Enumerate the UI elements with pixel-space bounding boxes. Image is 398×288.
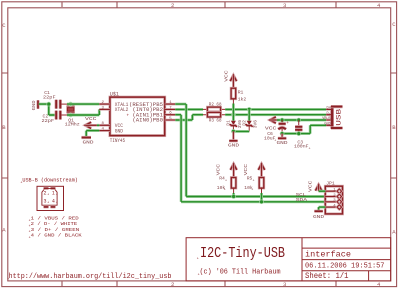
crystal Q1	[65, 104, 80, 128]
svg-text:+: +	[224, 189, 226, 193]
junction R5/SDA	[259, 200, 264, 205]
svg-text:VCC: VCC	[265, 126, 277, 132]
capacitor C2	[42, 111, 68, 125]
svg-text:D1: D1	[226, 120, 232, 126]
frame row ticks left	[2, 73, 8, 178]
svg-text:VCC: VCC	[243, 164, 249, 176]
svg-text:USB: USB	[336, 109, 343, 126]
svg-text:GND: GND	[228, 143, 239, 149]
svg-text:D2: D2	[241, 120, 247, 126]
junction D1 bottom	[231, 129, 236, 134]
svg-text:VCC: VCC	[85, 116, 97, 122]
svg-text:http://www.harbaum.org/till/i2: http://www.harbaum.org/till/i2c_tiny_usb	[9, 273, 172, 281]
ground GND4 (caps)	[277, 134, 288, 146]
wire XTAL2 net	[67, 109, 99, 115]
junction R1/D1 on D-	[231, 112, 236, 117]
frame column number 1 top	[61, 2, 63, 7]
connector USB body	[330, 106, 334, 129]
svg-text:(c) '06 Till Harbaum: (c) '06 Till Harbaum	[200, 269, 281, 277]
junction caps-gnd node	[46, 102, 51, 107]
svg-text:R3 68: R3 68	[209, 117, 222, 123]
svg-text:D-: D-	[326, 112, 330, 116]
text origin marks	[7, 181, 199, 282]
pin stubs right	[165, 104, 176, 120]
resistor R1 1k2 pullup	[224, 70, 247, 115]
usb-b socket shape	[42, 189, 57, 206]
frame column ticks bottom	[117, 281, 336, 287]
svg-text:2: 2	[171, 2, 174, 9]
junction D2 on D+	[247, 107, 252, 112]
svg-text:+: +	[286, 121, 289, 126]
svg-text:VCC: VCC	[307, 180, 313, 192]
svg-text:R1: R1	[238, 90, 244, 96]
zener diode D2 3V6	[241, 109, 258, 131]
svg-text:+: +	[198, 274, 200, 278]
usb-b pads	[44, 188, 56, 207]
svg-text:+: +	[197, 258, 199, 262]
svg-text:1k2: 1k2	[238, 97, 247, 103]
supply VCC (JP1 pin1)	[307, 180, 325, 192]
svg-text:JP1: JP1	[326, 181, 335, 187]
wire net D+ (R2 to USB)	[225, 108, 326, 111]
svg-text:2: 2	[171, 281, 174, 288]
svg-text:3 / D+ / GREEN: 3 / D+ / GREEN	[31, 227, 80, 233]
wire net SCL (pin1)	[175, 104, 325, 196]
wire GND1 to caps node	[39, 104, 55, 115]
ground GND5 (JP1 pin4)	[313, 207, 325, 220]
svg-text:1 / VBUS / RED: 1 / VBUS / RED	[31, 215, 79, 221]
resistor R5 10k pullup	[243, 164, 265, 202]
svg-text:D+: D+	[326, 107, 330, 111]
svg-text:06.11.2006 19:51:57: 06.11.2006 19:51:57	[305, 263, 385, 271]
title block box	[186, 238, 391, 281]
capacitor C3 100nF	[294, 120, 311, 151]
capacitor C6 10uF polarized	[264, 120, 289, 144]
pin 2 diamond	[325, 195, 337, 198]
svg-text:SDA: SDA	[296, 197, 308, 203]
frame column ticks top	[117, 2, 336, 8]
svg-text:interface: interface	[305, 251, 351, 260]
svg-text:+: +	[309, 147, 311, 151]
svg-text:+: +	[225, 179, 227, 183]
resistor R2 68	[203, 102, 225, 112]
svg-text:1: 1	[52, 191, 55, 197]
supply VCC (arrow left, VBUS)	[265, 117, 277, 132]
frame row ticks right	[391, 73, 397, 178]
svg-text:GND: GND	[277, 140, 288, 146]
resistor R4 10k pullup	[215, 164, 237, 197]
zener diode D1 3V6	[226, 115, 243, 132]
svg-text:VCC: VCC	[215, 164, 221, 176]
wire VCC to pin8	[97, 124, 99, 127]
svg-text:GND: GND	[83, 139, 94, 145]
junction C3 bottom	[296, 131, 301, 136]
wire D1-D2 bottoms	[233, 130, 249, 133]
wire net SDA (pin6)	[175, 115, 325, 202]
svg-text:+: +	[251, 189, 253, 193]
usb-b outline box	[37, 186, 64, 210]
svg-text:R2 68: R2 68	[209, 102, 222, 108]
op IC body U$1	[110, 97, 165, 136]
svg-text:U$1: U$1	[110, 91, 119, 97]
svg-text:+: +	[253, 179, 255, 183]
wire R1 to D- net	[232, 104, 235, 115]
ground GND2 (at pin 4)	[82, 131, 100, 146]
ground GND1 (left of C1/C2)	[31, 100, 38, 110]
svg-text:12Mhz: 12Mhz	[65, 122, 80, 128]
wire net VBUS	[277, 119, 326, 122]
svg-text:GND: GND	[324, 123, 330, 127]
svg-text:100nF: 100nF	[294, 144, 309, 150]
junction crystal bottom	[68, 113, 73, 118]
connector JP1 body	[325, 186, 342, 214]
pin stubs USB	[326, 109, 331, 125]
pin 4 diamond	[325, 206, 337, 209]
ground GND3 (zeners)	[228, 131, 239, 148]
svg-text:3: 3	[44, 199, 47, 205]
svg-text:+: +	[56, 201, 58, 205]
resistor R3 68	[203, 112, 225, 123]
wire net GND (USB to caps)	[282, 125, 326, 133]
svg-text:(AIN0)PB0: (AIN0)PB0	[132, 118, 163, 124]
wire XTAL1 net	[67, 103, 99, 106]
wire net D- (pin5 jog to R3)	[175, 115, 203, 120]
svg-text:Sheet: 1/1: Sheet: 1/1	[305, 272, 349, 281]
svg-text:+: +	[127, 113, 130, 118]
junction R4/SCL	[231, 194, 236, 199]
svg-text:XTAL2: XTAL2	[115, 107, 129, 113]
frame column number 1 bottom	[61, 282, 63, 287]
svg-text:I2C-Tiny-USB: I2C-Tiny-USB	[200, 245, 285, 262]
svg-text:2 / D- / WHITE: 2 / D- / WHITE	[31, 221, 78, 227]
supply VCC (R1)	[230, 75, 236, 81]
capacitor C1	[43, 90, 67, 108]
svg-text:GND: GND	[31, 100, 37, 110]
supply VCC (arrow left, at pin 8)	[85, 116, 99, 128]
svg-text:3V6: 3V6	[253, 120, 259, 129]
svg-text:GND: GND	[313, 214, 324, 220]
pin stubs left	[99, 104, 110, 131]
pin 1 diamond	[325, 190, 337, 193]
svg-text:+: +	[47, 193, 49, 197]
junction C3 top	[296, 118, 301, 123]
svg-text:TINY45: TINY45	[110, 138, 125, 144]
svg-text:VCC: VCC	[224, 70, 230, 82]
svg-text:USB-B (downstream): USB-B (downstream)	[22, 177, 78, 183]
svg-text:22pF: 22pF	[42, 118, 55, 124]
pin 3 diamond	[325, 201, 337, 204]
svg-text:4 / GND / BLACK: 4 / GND / BLACK	[31, 233, 82, 239]
junction C6 top	[280, 118, 285, 123]
svg-text:22pF: 22pF	[43, 95, 56, 101]
svg-text:4: 4	[52, 199, 55, 205]
svg-text:+: +	[47, 201, 49, 205]
junction crystal top	[68, 102, 73, 107]
svg-text:GND: GND	[115, 128, 123, 134]
svg-text:2: 2	[44, 191, 47, 197]
svg-text:VBUS: VBUS	[322, 117, 330, 121]
svg-text:3: 3	[283, 2, 286, 9]
wire net D- (R3 to USB)	[225, 113, 326, 116]
junction C6 bottom	[280, 131, 285, 136]
svg-text:3: 3	[283, 281, 286, 288]
svg-text:SCL: SCL	[296, 192, 307, 198]
wire net D+ (pin7 to R2)	[175, 108, 203, 111]
svg-text:+: +	[56, 193, 58, 197]
